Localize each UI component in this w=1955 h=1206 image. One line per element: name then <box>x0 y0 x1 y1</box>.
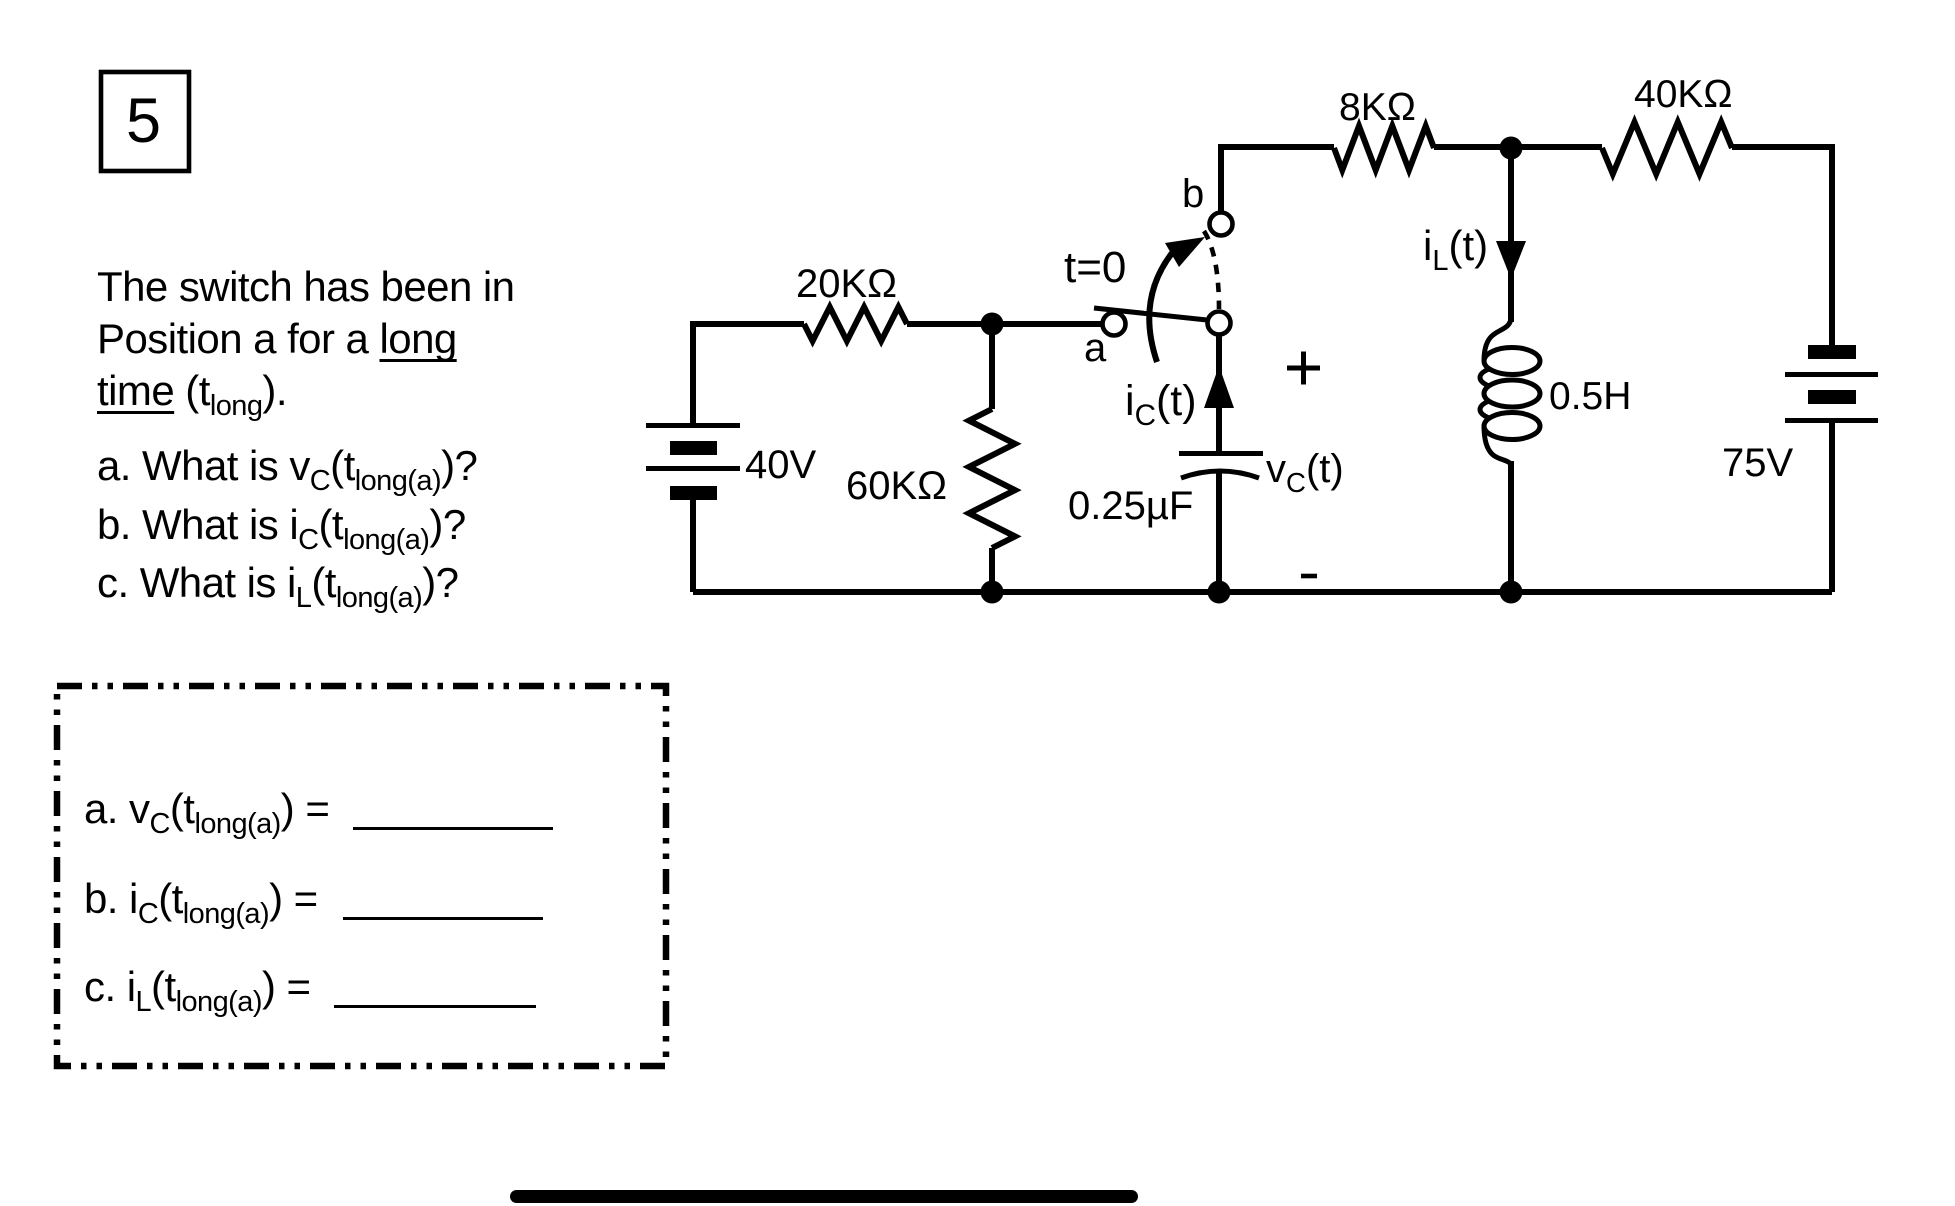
switch contact b circle <box>1210 213 1233 236</box>
junction node A (20K/60K/switch) <box>981 313 1004 336</box>
resistor R4 40KOhm <box>1602 122 1732 174</box>
inductor bottom wire <box>1508 461 1514 592</box>
minus sign polarity capacitor <box>1301 574 1317 579</box>
switch blade <box>1094 308 1207 320</box>
bottom divider bar <box>510 1190 1138 1203</box>
inductor branch top wire <box>1508 147 1514 322</box>
resistor R2 60KOhm <box>969 409 1015 548</box>
answer dashed box <box>57 686 666 1066</box>
battery V1 40V lead bottom <box>690 500 696 592</box>
circuit labels <box>796 264 897 304</box>
capacitor C1 curved plate <box>1181 471 1259 478</box>
wire 40K to right corner and down to 75V battery <box>1732 147 1832 352</box>
battery V1 40V plates <box>646 423 740 500</box>
switch contact a circle <box>1103 313 1126 336</box>
label 5 <box>126 90 161 153</box>
junction node bottom 60K <box>981 581 1004 604</box>
t=0 actuation arc arrow <box>1149 253 1172 362</box>
inductor current arrow iL <box>1496 241 1526 279</box>
switch pole circle <box>1208 312 1231 335</box>
wire from b up to top rail <box>1221 147 1334 213</box>
wire 8K to 40K <box>1434 144 1602 150</box>
bottom wire (ground rail) <box>693 589 1832 595</box>
capacitor C1 top plate <box>1179 451 1263 456</box>
junction node bottom capacitor <box>1208 581 1231 604</box>
plus sign polarity capacitor <box>1287 352 1320 385</box>
wire 60K branch top <box>989 324 995 409</box>
switch dashed throw to b <box>1204 231 1219 309</box>
capacitor bottom wire <box>1216 471 1222 592</box>
inductor L1 coil <box>1480 318 1540 464</box>
capacitor branch wire from pole <box>1216 335 1222 451</box>
battery V2 75V bottom lead <box>1829 423 1835 592</box>
answer line b <box>84 878 318 935</box>
wire 60K branch bottom <box>989 548 995 592</box>
wire top-left: battery to 20K resistor <box>693 324 804 425</box>
wire 20K to switch contact a <box>907 321 1102 327</box>
resistor R1 20KOhm <box>804 307 907 341</box>
junction node bottom inductor <box>1500 581 1523 604</box>
answer line c <box>84 966 310 1023</box>
answer line a <box>84 788 329 845</box>
problem statement <box>97 266 514 308</box>
problem number box <box>101 72 189 171</box>
resistor R3 8KOhm <box>1334 126 1434 170</box>
junction node top inductor <box>1500 137 1523 160</box>
battery V2 75V plates <box>1785 345 1878 423</box>
capacitor current arrow iC <box>1204 366 1234 408</box>
